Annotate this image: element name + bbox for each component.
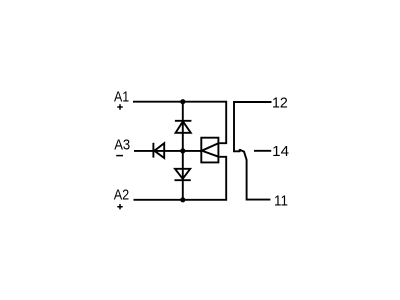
svg-text:A1: A1 — [114, 90, 129, 106]
wire diode column vertical — [182, 102, 184, 200]
contact blade — [240, 150, 247, 160]
diode D3 cathode bar — [152, 143, 154, 158]
node junction dot A2 — [180, 197, 185, 202]
diode D1 cathode bar — [175, 120, 192, 122]
wire terminal 14 stub — [254, 150, 271, 152]
relay coil U1 polarity triangle — [202, 143, 219, 156]
relay coil U1 rectangle — [201, 138, 218, 163]
diode D3 triangle — [154, 143, 164, 158]
polarity + for A2 — [117, 204, 122, 209]
wire A2 horizontal from coil bottom feed — [134, 157, 227, 200]
wire A3 horizontal — [134, 150, 201, 152]
polarity + for A1 — [117, 104, 122, 109]
diode D2 triangle — [175, 169, 190, 179]
svg-text:A3: A3 — [114, 138, 130, 154]
wire terminal 11 — [247, 160, 271, 200]
node junction dot A1 — [180, 99, 185, 104]
contact pivot dot — [239, 149, 242, 152]
svg-text:A2: A2 — [114, 188, 130, 204]
svg-text:14: 14 — [272, 144, 289, 160]
diode D1 triangle — [176, 121, 191, 132]
polarity - for A3 — [116, 155, 123, 157]
node junction dot A3 — [180, 148, 185, 153]
wire A1 horizontal to coil top feed — [133, 102, 226, 144]
wire terminal 12 — [234, 102, 272, 151]
svg-text:12: 12 — [272, 96, 288, 112]
svg-text:11: 11 — [274, 193, 288, 209]
diode D2 cathode bar — [175, 179, 191, 181]
